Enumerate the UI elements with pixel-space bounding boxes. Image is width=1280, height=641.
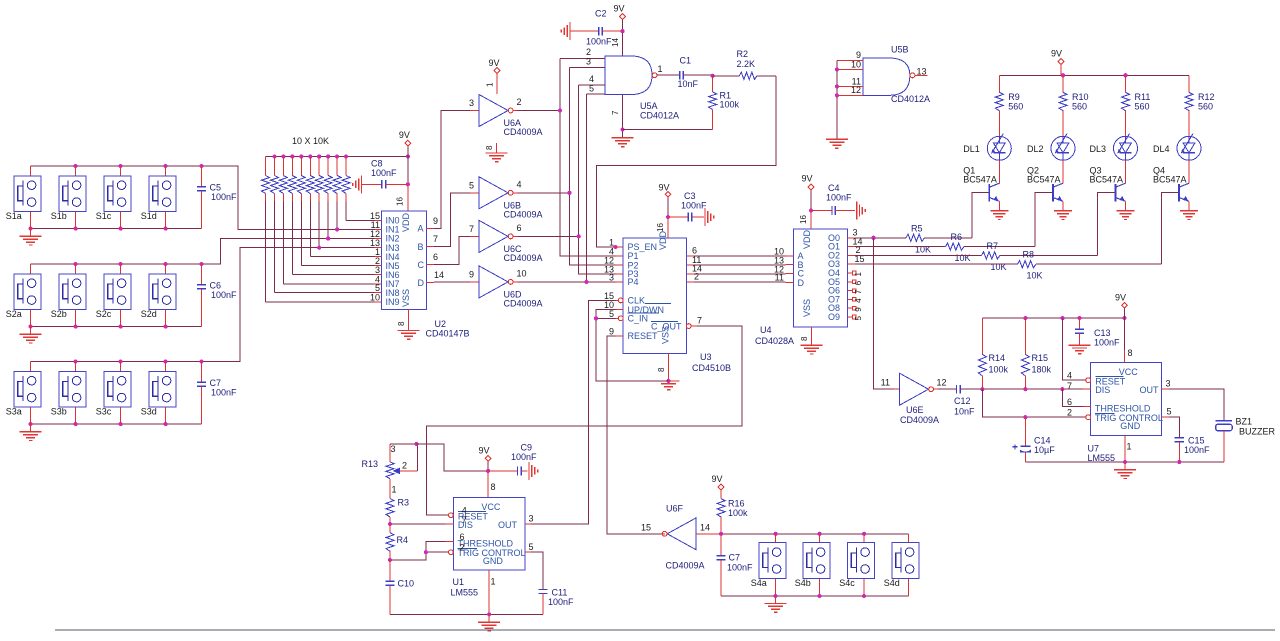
svg-text:9: 9 xyxy=(433,216,438,226)
svg-text:1: 1 xyxy=(392,485,397,495)
svg-text:2: 2 xyxy=(517,97,522,107)
svg-text:3: 3 xyxy=(469,98,474,108)
junction O0 to U6E xyxy=(871,236,875,240)
switch S3c xyxy=(96,362,131,425)
inverter U6F CD4009A xyxy=(641,504,721,571)
svg-text:9V: 9V xyxy=(489,58,500,68)
switch S4b xyxy=(795,534,830,596)
svg-text:100nF: 100nF xyxy=(681,201,707,211)
resistor R5 10K xyxy=(855,193,989,255)
svg-text:8: 8 xyxy=(485,145,494,150)
svg-text:15: 15 xyxy=(641,523,651,533)
wire R2 to U3.PS_EN xyxy=(597,76,776,249)
svg-text:DL3: DL3 xyxy=(1090,144,1107,154)
wires resistor array to U2 inputs xyxy=(266,221,375,302)
wire S3 row top bus xyxy=(31,248,375,364)
wire U3 UP/DWN + C_IN to ground xyxy=(594,310,669,381)
svg-text:7: 7 xyxy=(433,234,438,244)
capacitor C11 100nF xyxy=(531,552,574,614)
wire R3/R4 node to U1.DIS xyxy=(388,522,446,526)
svg-text:7: 7 xyxy=(697,316,702,326)
wire R13 to 9V xyxy=(417,444,489,471)
svg-text:3: 3 xyxy=(1166,379,1171,389)
svg-text:R8: R8 xyxy=(1023,250,1035,260)
wire U7 RESET to VCC xyxy=(1063,318,1086,380)
wire U2.B to U6B xyxy=(434,193,470,247)
capacitor C2 xyxy=(561,9,622,47)
svg-text:2: 2 xyxy=(402,461,407,471)
transistor Q4 BC547A xyxy=(1153,166,1189,211)
svg-text:2: 2 xyxy=(459,543,464,553)
svg-text:VDD: VDD xyxy=(802,229,812,249)
wire U3.Q2 to U4.B xyxy=(694,256,786,266)
svg-text:100nF: 100nF xyxy=(548,597,574,607)
svg-text:D: D xyxy=(418,278,425,288)
ground S3 row xyxy=(20,424,42,440)
svg-text:S1d: S1d xyxy=(141,211,157,221)
svg-text:S1b: S1b xyxy=(51,211,67,221)
svg-text:11: 11 xyxy=(775,272,784,282)
svg-text:R7: R7 xyxy=(987,241,999,251)
svg-text:THRESHOLD: THRESHOLD xyxy=(458,539,514,549)
capacitor C9 100nF xyxy=(488,442,538,480)
svg-text:6: 6 xyxy=(517,223,522,233)
LED DL4 xyxy=(1153,134,1201,184)
svg-text:S2a: S2a xyxy=(6,309,22,319)
capacitor C12 10nF xyxy=(938,385,982,417)
wire S4 row bottom bus xyxy=(721,594,909,598)
ground Q2 xyxy=(1054,211,1072,220)
svg-text:8: 8 xyxy=(657,367,666,372)
svg-text:C2: C2 xyxy=(595,9,607,19)
svg-text:VSS: VSS xyxy=(661,326,671,344)
svg-text:2: 2 xyxy=(1067,408,1072,418)
svg-text:R3: R3 xyxy=(398,498,410,508)
svg-text:C10: C10 xyxy=(398,579,415,589)
ground Q3 xyxy=(1116,211,1134,220)
svg-text:U5A: U5A xyxy=(640,101,658,111)
resistor R4 xyxy=(386,524,408,560)
svg-text:6: 6 xyxy=(854,280,863,285)
wire U3.Q3 to U4.C xyxy=(694,265,786,275)
svg-text:C7: C7 xyxy=(729,553,741,563)
ground U5A pin7 xyxy=(611,95,634,147)
svg-text:10: 10 xyxy=(851,59,861,69)
svg-text:R4: R4 xyxy=(397,535,409,545)
svg-text:7: 7 xyxy=(469,224,474,234)
power 9V (array) xyxy=(396,130,411,211)
svg-text:C6: C6 xyxy=(210,280,222,290)
wire S4 row top bus xyxy=(719,532,909,536)
resistor R15 180k xyxy=(1021,318,1051,389)
wire 555 timing node (DIS line) xyxy=(980,387,1083,391)
svg-text:R10: R10 xyxy=(1072,92,1089,102)
svg-text:S3b: S3b xyxy=(51,406,67,416)
svg-text:DL1: DL1 xyxy=(963,144,980,154)
wire U2.D to U6D xyxy=(434,281,470,283)
svg-text:100nF: 100nF xyxy=(727,563,753,573)
svg-text:R9: R9 xyxy=(1008,92,1020,102)
svg-text:DIS: DIS xyxy=(1095,385,1110,395)
svg-text:C1: C1 xyxy=(680,56,692,66)
resistor R1 100k xyxy=(623,74,740,130)
svg-text:9V: 9V xyxy=(802,174,813,184)
svg-text:C4: C4 xyxy=(828,183,840,193)
svg-text:C7: C7 xyxy=(210,378,222,388)
inverter U6A CD4009A xyxy=(469,95,543,138)
svg-text:U6E: U6E xyxy=(906,405,924,415)
svg-text:10nF: 10nF xyxy=(678,79,699,89)
svg-text:5: 5 xyxy=(1167,407,1172,417)
svg-text:100k: 100k xyxy=(989,365,1009,375)
ground Q1 xyxy=(990,211,1008,220)
transistor Q3 BC547A xyxy=(1090,166,1126,211)
switch S1b xyxy=(51,166,86,229)
svg-text:3: 3 xyxy=(529,514,534,524)
svg-text:OUT: OUT xyxy=(498,520,518,530)
gate U5B CD4012A xyxy=(835,45,930,140)
svg-text:560: 560 xyxy=(1135,102,1150,112)
transistor Q2 BC547A xyxy=(1027,166,1063,211)
svg-text:4: 4 xyxy=(517,179,522,189)
wire S3 row bottom bus xyxy=(28,422,201,426)
svg-text:10 X 10K: 10 X 10K xyxy=(292,136,329,146)
svg-text:VCC: VCC xyxy=(481,502,501,512)
svg-text:CD4009A: CD4009A xyxy=(504,127,543,137)
svg-text:100nF: 100nF xyxy=(371,168,397,178)
svg-text:180k: 180k xyxy=(1032,365,1052,375)
resistor R6 10K xyxy=(855,193,1053,263)
power 9V (R16) xyxy=(712,474,725,499)
svg-text:6: 6 xyxy=(1067,397,1072,407)
svg-text:5: 5 xyxy=(854,316,863,321)
svg-text:C11: C11 xyxy=(552,588,568,598)
switch S2d xyxy=(141,264,176,327)
power 9V (U1) xyxy=(479,446,496,498)
IC U1 LM555 xyxy=(446,498,534,598)
svg-text:R16: R16 xyxy=(728,499,745,509)
svg-text:13: 13 xyxy=(917,67,927,77)
svg-text:C13: C13 xyxy=(1094,328,1111,338)
gate U5A CD4012A xyxy=(586,47,679,120)
svg-text:14: 14 xyxy=(700,523,710,533)
svg-text:S2b: S2b xyxy=(51,309,67,319)
svg-text:THRESHOLD: THRESHOLD xyxy=(1095,404,1151,414)
resistor R11 560 xyxy=(1122,75,1151,136)
capacitor C1 xyxy=(657,56,713,90)
svg-text:12: 12 xyxy=(937,378,947,388)
ground U7 xyxy=(1114,462,1136,479)
inverter U6E CD4009A xyxy=(881,373,947,425)
svg-text:C5: C5 xyxy=(210,182,222,192)
svg-text:S1c: S1c xyxy=(96,211,112,221)
svg-text:BC547A: BC547A xyxy=(963,175,997,185)
ground U6 pin8 xyxy=(485,143,508,162)
svg-text:100nF: 100nF xyxy=(586,37,612,47)
svg-text:9V: 9V xyxy=(659,183,670,193)
svg-text:C_IN: C_IN xyxy=(628,314,649,324)
resistor R14 100k xyxy=(978,318,1008,389)
resistor R9 560 xyxy=(995,75,1023,136)
svg-text:9V: 9V xyxy=(712,474,723,484)
LED DL3 xyxy=(1090,134,1138,184)
svg-text:S4c: S4c xyxy=(839,578,855,588)
wire S2 row bottom bus xyxy=(28,325,201,329)
svg-text:B: B xyxy=(418,242,424,252)
wire U6A out to U5A.2 and U3.P1 xyxy=(518,58,616,256)
capacitor C3 xyxy=(668,191,714,226)
svg-text:100k: 100k xyxy=(728,508,748,518)
wire U2.A to U6A xyxy=(434,111,470,229)
svg-text:U3: U3 xyxy=(700,352,712,362)
inverter U6B CD4009A xyxy=(469,177,543,220)
svg-text:12: 12 xyxy=(851,85,861,95)
svg-text:100nF: 100nF xyxy=(211,290,237,300)
wire U6B out to U5A.3 and U3.P2 xyxy=(518,68,616,266)
svg-text:9: 9 xyxy=(469,269,474,279)
switch S2a xyxy=(6,264,41,327)
svg-text:4: 4 xyxy=(462,506,467,516)
svg-text:S3d: S3d xyxy=(141,406,157,416)
svg-text:6: 6 xyxy=(692,246,697,256)
wire S1 row bottom bus xyxy=(28,227,201,231)
trimmer R13 xyxy=(362,442,419,495)
capacitor C6 (S2 row) xyxy=(197,264,237,327)
svg-text:8: 8 xyxy=(800,336,809,341)
svg-text:100nF: 100nF xyxy=(211,192,237,202)
svg-text:U5B: U5B xyxy=(891,45,909,55)
svg-text:5: 5 xyxy=(469,180,474,190)
wire U6F out to U3.RESET xyxy=(607,336,662,534)
svg-text:5: 5 xyxy=(529,542,534,552)
switch S4c xyxy=(839,534,874,596)
inverter U6C CD4009A xyxy=(469,220,543,263)
svg-text:10K: 10K xyxy=(955,253,971,263)
svg-text:BC547A: BC547A xyxy=(1153,175,1187,185)
svg-text:11: 11 xyxy=(881,378,890,388)
svg-text:7: 7 xyxy=(462,515,467,525)
svg-text:100nF: 100nF xyxy=(1184,445,1210,455)
svg-text:C: C xyxy=(418,260,425,270)
capacitor C15 100nF xyxy=(1169,417,1210,462)
switch S1a xyxy=(6,166,41,229)
svg-text:S1a: S1a xyxy=(6,211,22,221)
svg-text:GND: GND xyxy=(483,556,504,566)
svg-text:CD4009A: CD4009A xyxy=(666,561,705,571)
ground Q4 xyxy=(1180,211,1198,220)
svg-text:9V: 9V xyxy=(399,130,410,140)
svg-text:5: 5 xyxy=(609,309,614,319)
svg-text:4: 4 xyxy=(1067,371,1072,381)
svg-text:16: 16 xyxy=(396,197,405,206)
svg-text:10µF: 10µF xyxy=(1034,445,1055,455)
switch S1c xyxy=(96,166,131,229)
svg-text:C15: C15 xyxy=(1188,436,1205,446)
svg-text:LM555: LM555 xyxy=(451,588,479,598)
svg-text:CD4009A: CD4009A xyxy=(504,209,543,219)
svg-text:VSS: VSS xyxy=(802,299,812,317)
wire LED supply bus xyxy=(999,73,1189,77)
svg-text:GND: GND xyxy=(1120,421,1141,431)
svg-text:100k: 100k xyxy=(720,100,740,110)
svg-text:9V: 9V xyxy=(1115,293,1126,303)
wire O0 to U6E input xyxy=(874,238,894,389)
svg-text:560: 560 xyxy=(1072,102,1087,112)
svg-text:VDD: VDD xyxy=(401,212,411,232)
resistor R8 10K xyxy=(855,193,1179,281)
wire U7 TRIG line xyxy=(982,389,1085,419)
capacitor C13 100nF xyxy=(1075,318,1120,347)
capacitor C4 xyxy=(811,183,865,220)
svg-text:2: 2 xyxy=(694,272,699,282)
svg-text:S4a: S4a xyxy=(751,578,767,588)
wire resistor array top bus xyxy=(266,154,411,158)
resistor R12 560 xyxy=(1185,75,1215,136)
svg-text:10K: 10K xyxy=(991,262,1007,272)
svg-text:C14: C14 xyxy=(1034,436,1051,446)
switch S4d xyxy=(884,534,919,596)
resistor R2 2.2K xyxy=(713,49,776,79)
svg-text:9: 9 xyxy=(609,326,614,336)
svg-text:VSS: VSS xyxy=(401,289,411,307)
wire U6C out to U5A.4 and U3.P3 xyxy=(518,85,616,274)
ground S4 row xyxy=(765,596,787,612)
capacitor C7 100nF (S4) xyxy=(717,534,754,596)
svg-text:S3a: S3a xyxy=(6,406,22,416)
svg-text:1: 1 xyxy=(486,82,495,87)
svg-text:CD4012A: CD4012A xyxy=(891,94,930,104)
svg-text:100nF: 100nF xyxy=(1094,338,1120,348)
capacitor C10 xyxy=(385,560,414,614)
sheet border xyxy=(55,629,1275,631)
svg-text:100nF: 100nF xyxy=(511,452,537,462)
power 9V (LED bank) xyxy=(1051,49,1064,76)
svg-text:VCC: VCC xyxy=(1119,367,1139,377)
power 9V (U4 pin16) xyxy=(799,174,814,230)
svg-text:CD4009A: CD4009A xyxy=(900,415,939,425)
power 9V (U7) xyxy=(1115,293,1133,363)
ground U2 VSS xyxy=(397,310,420,340)
IC U7 LM555 xyxy=(1067,363,1172,463)
wire U2.C to U6C xyxy=(434,236,470,264)
svg-text:CD4009A: CD4009A xyxy=(504,253,543,263)
svg-text:R6: R6 xyxy=(951,232,963,242)
LED DL1 xyxy=(963,134,1011,184)
svg-text:RESET: RESET xyxy=(628,331,659,341)
svg-text:BUZZER: BUZZER xyxy=(1239,427,1276,437)
svg-text:8: 8 xyxy=(1128,348,1133,358)
svg-text:7: 7 xyxy=(611,110,620,115)
ground U5B inputs xyxy=(826,139,848,148)
ground U4 VSS xyxy=(800,327,823,354)
svg-text:2.2K: 2.2K xyxy=(737,59,756,69)
svg-text:CD4028A: CD4028A xyxy=(755,336,794,346)
svg-text:560: 560 xyxy=(1008,102,1023,112)
svg-text:U1: U1 xyxy=(453,577,465,587)
svg-text:3: 3 xyxy=(586,57,591,67)
svg-text:16: 16 xyxy=(656,223,665,232)
svg-text:1: 1 xyxy=(658,64,663,74)
switch S3a xyxy=(6,362,41,425)
ground U1 xyxy=(478,614,500,631)
transistor Q1 BC547A xyxy=(963,166,999,211)
capacitor C5 (S1 row) xyxy=(197,166,237,229)
switch S3d xyxy=(141,362,176,425)
svg-text:100nF: 100nF xyxy=(826,193,852,203)
LED DL2 xyxy=(1027,134,1075,184)
svg-text:A: A xyxy=(418,224,424,234)
svg-text:S4b: S4b xyxy=(795,578,811,588)
power 9V (U3 pin16) xyxy=(656,183,671,239)
svg-text:S2d: S2d xyxy=(141,309,157,319)
svg-text:IN9: IN9 xyxy=(386,297,400,307)
svg-text:S4d: S4d xyxy=(884,578,900,588)
svg-text:R11: R11 xyxy=(1135,92,1151,102)
svg-text:P4: P4 xyxy=(628,277,639,287)
wire U3.C_OUT to U1.RESET xyxy=(426,326,742,515)
svg-text:DL2: DL2 xyxy=(1027,144,1044,154)
svg-text:9V: 9V xyxy=(479,446,490,456)
power 9V and pin14 (U5A) xyxy=(611,3,625,56)
svg-text:7: 7 xyxy=(854,289,863,294)
svg-text:C9: C9 xyxy=(521,442,533,452)
svg-text:R15: R15 xyxy=(1032,353,1049,363)
wire S2 row top bus xyxy=(31,239,375,267)
svg-text:U6F: U6F xyxy=(666,504,684,514)
svg-text:VDD: VDD xyxy=(658,230,668,250)
switch S2c xyxy=(96,264,131,327)
svg-text:3: 3 xyxy=(391,444,396,454)
svg-text:1: 1 xyxy=(1127,442,1132,452)
svg-text:16: 16 xyxy=(799,215,808,224)
wire U6D out to U5A.5 and U3.P4 xyxy=(518,94,616,284)
svg-text:6: 6 xyxy=(459,532,464,542)
capacitor C8 xyxy=(353,159,408,194)
svg-text:R13: R13 xyxy=(362,459,379,469)
svg-text:CD4009A: CD4009A xyxy=(504,298,543,308)
ground S1 row xyxy=(20,229,42,245)
wire U1 ground bus xyxy=(390,570,543,616)
svg-text:U7: U7 xyxy=(1088,444,1100,454)
wire U3.Q4 to U4.D xyxy=(694,272,786,282)
svg-text:9V: 9V xyxy=(1051,49,1062,59)
svg-text:DL4: DL4 xyxy=(1153,144,1170,154)
switch S2b xyxy=(51,264,86,327)
svg-text:R2: R2 xyxy=(737,49,749,59)
wire U1.OUT to U3.CLK xyxy=(531,300,616,524)
svg-text:10K: 10K xyxy=(1027,271,1043,281)
svg-text:BZ1: BZ1 xyxy=(1236,416,1253,426)
svg-text:14: 14 xyxy=(434,270,444,280)
svg-text:10: 10 xyxy=(517,268,527,278)
svg-text:D: D xyxy=(798,278,805,288)
svg-text:7: 7 xyxy=(1067,381,1072,391)
svg-text:10K: 10K xyxy=(915,244,931,254)
switch S1d xyxy=(141,166,176,229)
svg-text:CD4510B: CD4510B xyxy=(692,363,731,373)
svg-text:CD40147B: CD40147B xyxy=(426,329,470,339)
resistor R3 xyxy=(386,479,409,524)
svg-text:1: 1 xyxy=(854,272,863,277)
resistor R16 100k xyxy=(717,499,748,534)
capacitor C7 (S3 row) xyxy=(197,362,237,425)
svg-text:BC547A: BC547A xyxy=(1027,175,1061,185)
wire R4 bottom to U1.TRIG/THR xyxy=(388,542,449,562)
svg-text:C8: C8 xyxy=(371,159,383,169)
svg-text:1: 1 xyxy=(491,577,496,587)
resistor R10 560 xyxy=(1059,75,1089,136)
svg-text:10: 10 xyxy=(370,292,380,302)
